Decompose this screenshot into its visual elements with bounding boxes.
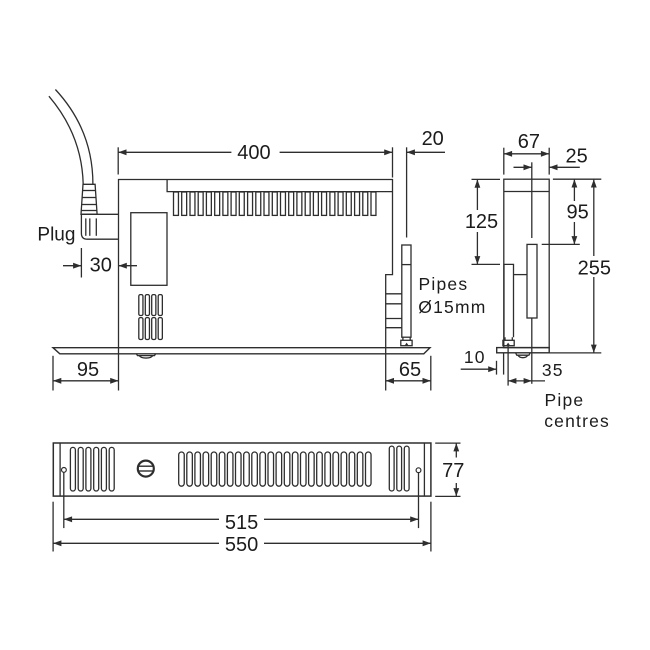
dimension 255: label [578, 257, 611, 279]
dimension 400: label [237, 142, 270, 164]
dimension 20: arrow line [407, 149, 445, 155]
dimension 255: extension line bottom [549, 352, 601, 354]
svg-text:25: 25 [565, 145, 587, 167]
end view: body outline [504, 179, 549, 347]
svg-text:255: 255 [578, 257, 611, 279]
side view: foot under base [136, 354, 155, 358]
end view: front pipe [504, 264, 514, 337]
svg-text:515: 515 [225, 512, 258, 534]
front view: central slot group (24) [179, 452, 371, 486]
dimension 550: label [225, 534, 258, 556]
dimension 550: extension lines [53, 502, 431, 552]
front view: left screw hole [62, 468, 67, 473]
dimension 95 vertical: label [567, 201, 589, 223]
front view: right slot group (3) [389, 446, 409, 491]
svg-text:67: 67 [518, 131, 540, 153]
dimension 30: label [90, 254, 112, 276]
svg-text:Pipes: Pipes [419, 274, 469, 294]
dimension 95: extension lines [53, 348, 119, 391]
dimension 67: label [518, 131, 540, 153]
side view: plug strain relief [81, 184, 97, 214]
dimension 77: label [442, 460, 464, 482]
dimension 67: extension lines [504, 148, 549, 175]
end view: rear pipe [527, 244, 537, 318]
front view: right screw hole [416, 468, 421, 473]
svg-text:550: 550 [225, 534, 258, 556]
dimension 35: label [542, 360, 564, 380]
dimension 125: dimension line [475, 179, 481, 264]
dimension 65: label [399, 359, 421, 381]
svg-text:Ø15mm: Ø15mm [418, 297, 486, 317]
dimension 77: dimension line [453, 443, 459, 496]
front view: left slot group (6) [70, 447, 114, 491]
label Pipe centres [544, 390, 610, 431]
svg-text:centres: centres [544, 411, 610, 431]
side view: top vent slots (25) [174, 192, 376, 215]
end view: base flange [497, 348, 550, 353]
svg-text:10: 10 [464, 347, 486, 367]
dimension 95: dimension line [53, 378, 119, 384]
svg-text:95: 95 [567, 201, 589, 223]
dimension 95 vertical: extension lines [542, 179, 602, 244]
svg-text:65: 65 [399, 359, 421, 381]
side view: pipe joint line [402, 264, 411, 266]
side view: pipe tail connections [386, 294, 402, 328]
dimension 35: pipe centre extension [507, 346, 509, 386]
svg-text:20: 20 [422, 128, 444, 150]
dimension 10: extension lines [497, 353, 504, 375]
side view: control box [131, 213, 167, 286]
dimension 515: extension lines [64, 472, 419, 528]
svg-text:77: 77 [442, 460, 464, 482]
end view: rear pipe centre line [531, 162, 533, 383]
label Plug [37, 224, 75, 245]
dimension 515: label [225, 512, 258, 534]
svg-text:125: 125 [465, 211, 498, 233]
dimension 30: extension line [80, 248, 82, 278]
side view: rear pipe [402, 245, 411, 337]
side view: lower louvre grid (4x2) [139, 295, 163, 340]
dimension 515: dimension line [64, 516, 419, 522]
dimension 125: extension lines [472, 179, 501, 264]
dimension 25: arrows [514, 164, 580, 170]
dimension 95: label [77, 359, 99, 381]
dimension 65: extension lines [386, 348, 431, 391]
svg-text:95: 95 [77, 359, 99, 381]
dimension 400: dimension line with arrows [118, 149, 392, 155]
dimension 30: arrows [63, 263, 137, 269]
dimension 25: label [565, 145, 587, 167]
front view: slotted screw head [138, 461, 154, 477]
side view: top vent recess line [167, 180, 392, 192]
side view: power cable [49, 90, 93, 185]
svg-text:35: 35 [542, 360, 564, 380]
dimension 67: dimension line [504, 151, 549, 157]
svg-text:30: 30 [90, 254, 112, 276]
dimension 10: label [464, 347, 486, 367]
dimension 125: label [465, 211, 498, 233]
dimension 255: dimension line [591, 179, 597, 353]
svg-text:400: 400 [237, 142, 270, 164]
dimension 400: extension lines [118, 147, 392, 177]
end view: foot [516, 353, 531, 358]
dimension 20: extension line (pipe centre) [406, 147, 408, 237]
end view: front pipe fitting [503, 337, 514, 345]
dimension 65: dimension line [386, 378, 431, 384]
dimension 550: dimension line [53, 540, 431, 546]
end view: pipe recess line [514, 274, 528, 276]
side view: base plate [53, 348, 430, 354]
front view: end cap lines [60, 443, 424, 496]
dimension 35: dimension line [508, 378, 545, 384]
svg-text:Pipe: Pipe [545, 390, 585, 410]
svg-text:Plug: Plug [37, 224, 75, 245]
dimension 20: label [422, 128, 444, 150]
label Pipes diameter [418, 274, 486, 317]
dimension 10: arrow line [461, 366, 497, 372]
side view: heater main body outline [119, 180, 393, 348]
front view: grille panel outline [53, 443, 431, 496]
side view: mains plug body [81, 214, 118, 239]
dimension 95 vertical: dimension line [572, 179, 578, 244]
end view: top cap line [504, 191, 549, 193]
dimension 77: extension lines [435, 443, 460, 496]
side view: pipe bottom compression fitting [401, 337, 412, 345]
